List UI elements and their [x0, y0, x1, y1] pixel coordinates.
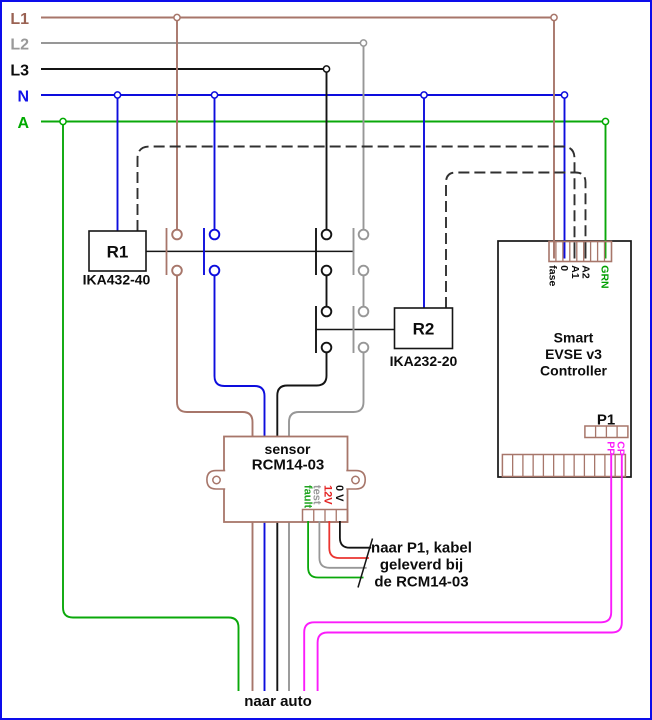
wire blue contact to sensor to car [215, 271, 265, 692]
wire brown L1 to fase pin [553, 18, 555, 259]
wire gray contact to sensor to car [289, 348, 364, 692]
svg-text:naar P1, kabel: naar P1, kabel [371, 540, 472, 557]
wire black link row1-row2 [326, 271, 328, 312]
junction node L3 end [323, 66, 329, 72]
junction node L2 end [360, 40, 366, 46]
sensor mounting ear left [207, 471, 225, 489]
controller U1 Smart EVSE v3 box [498, 241, 631, 477]
wire magenta CP to car [318, 454, 622, 692]
controller bottom pin header [502, 455, 625, 477]
relay R2 box [395, 308, 453, 349]
svg-text:L1: L1 [10, 11, 29, 28]
annotation naar P1 [371, 540, 472, 591]
R2 actuator link [316, 329, 395, 331]
wire L3 bus [41, 68, 327, 70]
svg-text:naar auto: naar auto [244, 693, 312, 710]
svg-text:12V: 12V [321, 485, 333, 505]
wire dashed R1 coil to A1 pin [138, 147, 575, 245]
svg-text:N: N [17, 89, 29, 106]
contact bar black pole row1 [315, 228, 317, 275]
contact terminals gray pole row2 [359, 307, 369, 353]
contact terminals brown pole [172, 230, 182, 276]
wire blue N to 0 pin [564, 95, 566, 259]
wire green A to GRN pin [605, 122, 607, 259]
junction node N-R2 [421, 92, 427, 98]
svg-text:geleverd bij: geleverd bij [380, 557, 463, 574]
svg-text:0: 0 [558, 265, 570, 271]
svg-text:A1: A1 [569, 265, 581, 279]
svg-text:EVSE v3: EVSE v3 [545, 346, 602, 362]
wire blue N to contact [214, 95, 216, 235]
svg-text:Smart: Smart [554, 330, 594, 346]
wire gray link row1-row2 [363, 271, 365, 312]
svg-text:de RCM14-03: de RCM14-03 [374, 574, 468, 591]
junction node L1-brown drop [174, 14, 180, 20]
svg-text:L2: L2 [10, 37, 29, 54]
contact terminals blue pole [210, 230, 220, 276]
contact bar gray pole row1 [353, 228, 355, 275]
contact bar brown pole [166, 228, 168, 275]
wire sensor 0V black [340, 521, 371, 548]
svg-text:L3: L3 [10, 63, 29, 80]
svg-text:fase: fase [546, 265, 558, 286]
svg-text:A2: A2 [580, 265, 592, 279]
wire dashed A2 tail [585, 244, 587, 259]
wire L2 bus [41, 42, 364, 44]
wire L1 bus [41, 17, 554, 19]
svg-text:R2: R2 [413, 320, 435, 339]
wire sensor fault green [308, 521, 363, 578]
sensor ear hole right [352, 476, 359, 483]
sensor ear hole left [213, 476, 220, 483]
wire brown L1 to contact [176, 18, 178, 235]
svg-text:test: test [310, 485, 322, 505]
wire A earth bus [41, 121, 606, 123]
junction node L1 end [551, 14, 557, 20]
wire gray L2 to contact [363, 43, 365, 235]
relay R1 box [89, 231, 146, 271]
contact bar gray pole row2 [353, 306, 355, 353]
contact bar blue pole [203, 228, 205, 275]
connector P1 header [585, 426, 628, 438]
svg-text:0 V: 0 V [333, 485, 345, 502]
svg-text:sensor: sensor [265, 441, 311, 457]
junction node A end [602, 118, 608, 124]
svg-text:GRN: GRN [599, 265, 611, 288]
junction node A-left [60, 118, 66, 124]
wire dashed R2 coil to A2 pin [446, 173, 586, 309]
sensor pin header [303, 510, 348, 523]
wire blue N to R1 coil [117, 95, 119, 231]
svg-text:RCM14-03: RCM14-03 [252, 457, 325, 474]
svg-text:R1: R1 [107, 243, 129, 262]
svg-text:CP: CP [614, 441, 626, 456]
junction node N end [561, 92, 567, 98]
wire dashed A1 tail [574, 244, 576, 259]
svg-text:Controller: Controller [540, 363, 607, 379]
R1 actuator link [146, 250, 354, 252]
contact terminals gray pole row1 [359, 230, 369, 276]
cable slash mark [358, 539, 373, 588]
wire sensor test gray [319, 521, 366, 568]
wire sensor 12V red [329, 521, 369, 558]
sensor mounting ear right [346, 471, 365, 489]
wire black L3 to contact [326, 69, 328, 235]
contact bar black pole row2 [315, 306, 317, 353]
wire N bus [41, 94, 565, 96]
junction node N-R1 [114, 92, 120, 98]
sensor RCM14-03 box [224, 437, 348, 523]
contact terminals black pole row1 [322, 230, 332, 276]
svg-text:IKA432-40: IKA432-40 [83, 272, 151, 288]
wire blue N to R2 coil [423, 95, 425, 308]
contact terminals black pole row2 [322, 307, 332, 353]
svg-text:A: A [17, 115, 29, 132]
wire magenta PP to car [304, 454, 611, 692]
controller top pin header [549, 242, 612, 262]
wire brown contact to sensor to car [177, 271, 253, 692]
junction node N-contact [211, 92, 217, 98]
svg-text:IKA232-20: IKA232-20 [390, 353, 458, 369]
wire green earth left drop to car [63, 122, 239, 692]
wire black contact to sensor to car [277, 348, 326, 692]
